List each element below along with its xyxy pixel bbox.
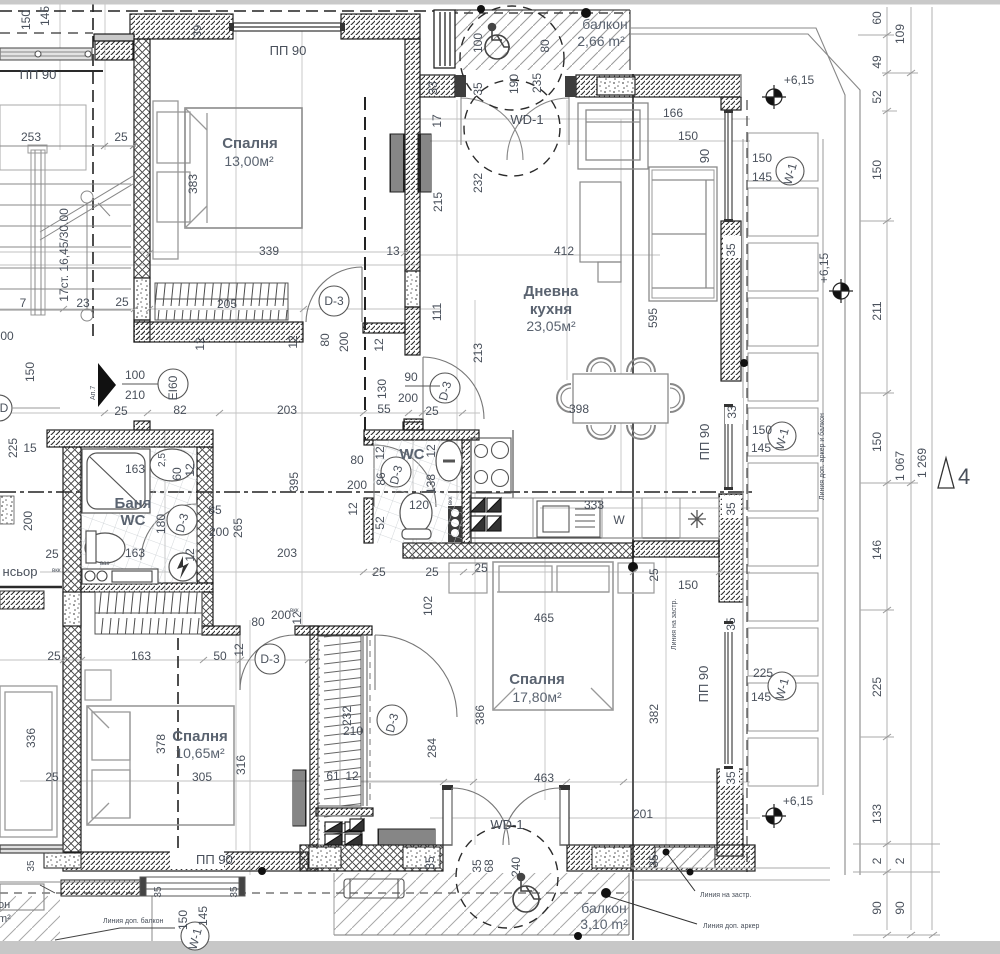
svg-text:145: 145: [38, 6, 52, 26]
svg-text:150: 150: [176, 910, 190, 930]
svg-text:163: 163: [131, 649, 151, 663]
kitchen bottom wall right part: [633, 541, 719, 557]
stairwell landing rect: [0, 105, 86, 170]
svg-text:25: 25: [115, 295, 129, 309]
svg-text:Спалня: Спалня: [172, 728, 228, 745]
WC top wall: [364, 430, 479, 440]
svg-text:378: 378: [154, 734, 168, 754]
building line vertical x633: [632, 74, 634, 940]
closet front double line: [340, 636, 367, 806]
svg-text:339: 339: [259, 244, 279, 258]
svg-text:80: 80: [538, 39, 552, 53]
svg-text:39: 39: [192, 25, 204, 37]
dashed axis x93 top: [92, 0, 94, 337]
kitchen counter front edge: [470, 430, 719, 538]
svg-text:+6,15: +6,15: [817, 252, 831, 283]
svg-text:12: 12: [193, 337, 207, 351]
svg-text:вкк: вкк: [290, 608, 299, 614]
WC left wall upper: [364, 440, 373, 445]
D-3 circles: [167, 286, 460, 735]
svg-text:кухня: кухня: [530, 301, 572, 318]
svg-text:200: 200: [347, 478, 367, 492]
svg-text:253: 253: [21, 130, 41, 144]
door D-3 bathroom leaf+arc: [141, 504, 197, 560]
svg-text:балкон: балкон: [581, 900, 626, 916]
wheelchair icon top balcony: [485, 24, 510, 60]
living top wall right column down: [721, 97, 741, 110]
flat left wall: [63, 447, 81, 852]
wardrobe bedroom1: [155, 283, 288, 320]
svg-text:25: 25: [474, 561, 488, 575]
bathroom toilet: [85, 531, 125, 563]
svg-text:201: 201: [633, 807, 653, 821]
elevator hatch piece: [0, 591, 44, 609]
neighbour bed bottom-left: [0, 686, 57, 837]
nightstand bedroom2: [85, 670, 111, 700]
svg-text:163: 163: [125, 546, 145, 560]
kitchen bottom wall: [403, 543, 633, 558]
svg-text:60: 60: [170, 467, 184, 481]
living left wall insulation: [405, 271, 420, 307]
svg-text:1 067: 1 067: [893, 451, 907, 481]
svg-text:203: 203: [277, 546, 297, 560]
balcony top 2.66 floor hatch: [455, 10, 630, 70]
svg-text:60: 60: [870, 11, 884, 25]
svg-text:150: 150: [23, 362, 37, 382]
dashed line right of flat x745: [746, 100, 748, 872]
svg-text:17,80м²: 17,80м²: [512, 689, 562, 705]
fridge snowflake: [688, 510, 706, 528]
svg-text:336: 336: [24, 728, 38, 748]
closet dashed front: [369, 640, 371, 800]
bedroom1 left wall: [134, 39, 150, 278]
neighbour line top-left y71 PP90: [0, 70, 103, 72]
stair walk line: [40, 176, 133, 232]
svg-text:Ап.7: Ап.7: [90, 386, 97, 400]
stair steps: [0, 183, 131, 185]
svg-text:WC: WC: [400, 446, 425, 463]
bedroom2 right wall / closet wall: [310, 626, 318, 871]
left small insulation piece: [0, 496, 14, 524]
balcony top dashed border: [434, 12, 630, 14]
svg-text:386: 386: [473, 705, 487, 725]
white boxes for wall labels: [720, 236, 743, 786]
svg-text:52: 52: [373, 516, 387, 530]
bedroom2 top wall right part: [295, 626, 372, 635]
svg-text:ПП 90: ПП 90: [270, 43, 307, 58]
door D-3 kitchen leaf+arc: [423, 357, 484, 419]
svg-text:Линия доп. балкон: Линия доп. балкон: [103, 917, 164, 925]
chimney notch above bathroom: [134, 421, 150, 430]
svg-text:ПП 90: ПП 90: [696, 666, 711, 703]
svg-text:12: 12: [183, 463, 197, 477]
bed bedroom3: [493, 562, 613, 710]
door WD-1 bottom jamb left: [443, 788, 452, 845]
svg-text:35: 35: [229, 886, 240, 898]
svg-text:Линия на застр.: Линия на застр.: [671, 599, 678, 650]
black dots: [477, 5, 485, 13]
svg-text:163: 163: [125, 462, 145, 476]
svg-text:80: 80: [350, 453, 364, 467]
svg-text:+6,15: +6,15: [784, 73, 815, 87]
section dash-dot line horizontal: [0, 491, 752, 493]
nightstand bedroom3 right: [618, 563, 654, 593]
living left wall lower: [405, 307, 420, 355]
bedroom2 bottom wall: [63, 852, 308, 871]
svg-text:80: 80: [318, 333, 332, 347]
dashed circle WD-1 bottom: [456, 826, 558, 928]
svg-text:180: 180: [154, 514, 168, 534]
svg-text:35: 35: [647, 854, 661, 868]
svg-text:150: 150: [752, 423, 772, 437]
svg-text:49: 49: [870, 55, 884, 69]
svg-text:17ст. 16,45/30.00: 17ст. 16,45/30.00: [57, 208, 71, 302]
dashed circle balcony top: [460, 6, 564, 110]
svg-text:35: 35: [153, 886, 164, 898]
svg-text:225: 225: [870, 677, 884, 697]
svg-text:ПП 90: ПП 90: [20, 67, 57, 82]
svg-text:61: 61: [326, 769, 340, 783]
benchmark crosshair 3: [762, 804, 786, 828]
svg-text:316: 316: [234, 755, 248, 775]
svg-text:балкон: балкон: [582, 16, 627, 32]
svg-text:7: 7: [20, 296, 27, 310]
right wall window 1: [725, 112, 732, 220]
axis bubble -D: [0, 395, 12, 421]
bottom gray bar: [0, 941, 1000, 954]
svg-text:145: 145: [751, 690, 771, 704]
svg-text:211: 211: [870, 301, 884, 320]
svg-text:100: 100: [471, 33, 485, 53]
svg-text:305: 305: [192, 770, 212, 784]
svg-text:35: 35: [724, 243, 738, 257]
svg-text:150: 150: [870, 160, 884, 180]
svg-text:68: 68: [482, 859, 496, 873]
circle labels: [0, 161, 800, 951]
bedroom1 bottom wall: [134, 322, 303, 342]
svg-text:146: 146: [870, 540, 884, 560]
door D-3 WC leaf+arc: [374, 445, 436, 507]
door WD-1 bottom arcs: [452, 788, 560, 845]
benchmark crosshair 1: [762, 85, 786, 109]
horizontal dimension numbers: [0, 73, 814, 821]
svg-text:225: 225: [6, 438, 20, 458]
vent squares kitchen: [471, 498, 501, 531]
right dim chain lines: [631, 7, 940, 935]
svg-text:100: 100: [125, 368, 145, 382]
svg-text:225: 225: [753, 666, 773, 680]
bathroom top wall: [47, 430, 213, 447]
bottom wall right of door WD-1: [567, 845, 631, 871]
svg-text:150: 150: [678, 578, 698, 592]
dashed circle WD-1 top: [464, 80, 560, 176]
svg-text:Баня: Баня: [115, 495, 152, 512]
svg-text:10,65м²: 10,65м²: [175, 745, 225, 761]
svg-text:150: 150: [678, 129, 698, 143]
svg-text:+6,15: +6,15: [783, 794, 814, 808]
neighbour wall step top-left: [94, 34, 134, 41]
svg-text:4: 4: [958, 464, 970, 489]
svg-text:200: 200: [271, 608, 291, 622]
svg-text:210: 210: [125, 388, 145, 402]
svg-text:145: 145: [752, 170, 772, 184]
svg-text:133: 133: [870, 804, 884, 824]
svg-text:D-3: D-3: [260, 652, 280, 666]
svg-text:35: 35: [471, 82, 485, 96]
svg-text:Линия на застр.: Линия на застр.: [700, 892, 751, 899]
svg-text:35: 35: [26, 860, 37, 872]
living top wall left piece: [420, 75, 455, 97]
right wall pillar y769-856: [717, 769, 743, 856]
svg-text:нсьор: нсьор: [3, 564, 38, 579]
dashed axis x178 bedroom2: [177, 638, 179, 852]
wardrobe below bathroom: [95, 592, 202, 634]
svg-text:25: 25: [647, 568, 661, 582]
neighbour window top-left: [0, 48, 92, 60]
triangle level mark 4: [938, 458, 954, 488]
svg-text:1 269: 1 269: [915, 448, 929, 478]
top dashed line y9: [0, 10, 434, 12]
svg-text:W: W: [613, 513, 625, 527]
armchair living: [578, 103, 648, 169]
coffee table living: [580, 182, 621, 282]
svg-text:265: 265: [231, 518, 245, 538]
svg-text:150: 150: [752, 151, 772, 165]
svg-text:86: 86: [374, 472, 388, 486]
svg-text:Линия доп. аркер: Линия доп. аркер: [703, 923, 759, 930]
svg-text:12: 12: [424, 444, 438, 458]
svg-text:25: 25: [45, 547, 59, 561]
balcony door frame element top: [434, 10, 455, 68]
svg-text:33: 33: [426, 81, 440, 95]
svg-text:52: 52: [870, 90, 884, 104]
right wall pillar between windows 1-2: [721, 221, 741, 381]
svg-text:190: 190: [507, 74, 521, 94]
svg-text:232: 232: [471, 173, 485, 193]
svg-text:333: 333: [584, 498, 604, 512]
svg-text:12: 12: [232, 643, 246, 657]
WC floor tiles: [373, 440, 462, 543]
sofa living: [649, 167, 717, 301]
svg-text:12: 12: [345, 769, 359, 783]
svg-text:145: 145: [751, 441, 771, 455]
bathroom right wall: [197, 447, 213, 583]
svg-text:200: 200: [337, 332, 351, 352]
bedroom1 top wall left part: [47, 14, 755, 871]
svg-text:он: он: [0, 899, 10, 911]
svg-text:ПП 90: ПП 90: [196, 852, 233, 867]
bottom wall between bedroom2 and bedroom3: [300, 845, 443, 871]
svg-text:12: 12: [286, 335, 300, 349]
W-1 circles: [181, 157, 804, 950]
svg-text:33: 33: [725, 405, 739, 419]
svg-text:вак: вак: [100, 561, 109, 567]
bathroom washer row: [82, 569, 158, 584]
window end caps right wall: [724, 110, 733, 769]
svg-text:00: 00: [0, 329, 14, 343]
neighbour balcony SW floor hatch: [0, 896, 60, 954]
svg-text:102: 102: [421, 596, 435, 616]
svg-text:382: 382: [647, 704, 661, 724]
svg-text:2: 2: [893, 857, 907, 864]
bottom-right wall band: [631, 845, 755, 871]
bedroom2 window bottom: [140, 877, 245, 896]
svg-text:120: 120: [409, 498, 429, 512]
kitchen door wall stub: [404, 419, 423, 430]
balcony divider wall block: [61, 880, 140, 896]
svg-text:13: 13: [386, 244, 400, 258]
svg-text:EI60: EI60: [166, 375, 180, 400]
dashed axis x365: [364, 97, 366, 440]
svg-text:595: 595: [646, 308, 660, 328]
svg-text:12: 12: [372, 338, 386, 352]
closet bottom wall: [316, 808, 373, 816]
svg-text:25: 25: [45, 770, 59, 784]
svg-text:465: 465: [534, 611, 554, 625]
fraction lines: [122, 384, 440, 627]
bedroom1 left wall bottom piece: [134, 320, 150, 342]
svg-text:232: 232: [340, 706, 354, 726]
corridor top wall stub right of door: [363, 323, 405, 333]
svg-text:m²: m²: [0, 913, 11, 925]
living top wall insulation block: [597, 77, 635, 95]
tiny leader texts: [0, 892, 759, 930]
door D-3 bedroom3 entry arc: [375, 635, 457, 717]
WC top wall notch: [403, 422, 423, 430]
door WD-1 top jamb right: [565, 76, 576, 97]
svg-text:WD-1: WD-1: [510, 112, 543, 127]
svg-text:200: 200: [209, 525, 229, 539]
flat left wall stipple segment: [63, 592, 81, 626]
balcony bottom dashed border: [0, 892, 629, 894]
svg-text:50: 50: [213, 649, 227, 663]
living left wall upper: [405, 39, 420, 271]
svg-text:90: 90: [870, 901, 884, 915]
WC toilet: [400, 493, 432, 539]
svg-text:23,05м²: 23,05м²: [526, 318, 576, 334]
svg-text:145: 145: [196, 906, 210, 926]
svg-text:WD-1: WD-1: [490, 817, 523, 832]
door WD-1 top arcs: [461, 97, 569, 160]
WC right wall: [462, 440, 471, 543]
right wall window 3: [725, 623, 732, 767]
top outline polyline: [630, 28, 860, 875]
svg-text:138: 138: [424, 474, 438, 494]
wall piece below bathroom right: [202, 592, 213, 626]
bed bedroom1 headboard strip: [153, 101, 302, 259]
svg-text:D-3: D-3: [324, 294, 344, 308]
radiator bedroom2: [293, 770, 306, 826]
svg-text:235: 235: [530, 73, 544, 93]
svg-text:80: 80: [251, 615, 265, 629]
svg-text:90: 90: [404, 370, 418, 384]
door D-3 bedroom1 leaf+arc: [306, 267, 362, 322]
radiators flanking living left wall: [390, 134, 404, 192]
small vent square left of bedroom3 radiator: [350, 819, 364, 831]
svg-text:25: 25: [372, 565, 386, 579]
bathtub: [82, 449, 150, 513]
nightstand bedroom3 left: [449, 563, 487, 593]
svg-text:463: 463: [534, 771, 554, 785]
svg-text:17: 17: [430, 114, 444, 128]
EI60 circle: [158, 369, 188, 399]
svg-text:3,10 m²: 3,10 m²: [580, 916, 628, 932]
bedroom1 window top: [233, 23, 341, 31]
svg-text:WC: WC: [121, 512, 146, 529]
svg-text:25: 25: [114, 130, 128, 144]
benchmark crosshair 2: [829, 279, 853, 303]
svg-text:12: 12: [346, 502, 360, 516]
entry arrow: [98, 363, 116, 407]
WC left wall lower: [364, 498, 373, 543]
vent squares near bedroom3: [325, 822, 362, 845]
living top wall right piece: [576, 75, 741, 97]
svg-text:85: 85: [208, 503, 222, 517]
bedroom2 top wall left part: [202, 626, 240, 635]
svg-text:35: 35: [724, 502, 738, 516]
door D-3 bedroom2 leaf+arc: [240, 635, 295, 690]
svg-text:90: 90: [893, 901, 907, 915]
svg-text:12: 12: [183, 548, 197, 562]
svg-text:412: 412: [554, 244, 574, 258]
radiator bedroom3: [378, 829, 435, 845]
elevator wall piece: [0, 586, 62, 588]
bathroom floor tiles: [81, 447, 197, 583]
cooktop: [471, 438, 511, 493]
dark shaft column near WC: [448, 506, 462, 542]
svg-text:2: 2: [870, 857, 884, 864]
svg-text:205: 205: [217, 297, 237, 311]
bottom-left leader line: [40, 885, 175, 940]
window end caps bedroom1 / bedroom2: [229, 23, 345, 31]
washer W box: [602, 498, 642, 538]
svg-text:383: 383: [186, 174, 200, 194]
balcony panels column right: [743, 133, 823, 795]
svg-text:2,5: 2,5: [157, 453, 168, 467]
svg-text:Спалня: Спалня: [509, 671, 565, 688]
bed bedroom1 mattress: [185, 108, 302, 228]
bottom-right leader lines: [604, 852, 697, 924]
room labels: [3, 16, 629, 932]
bed bedroom1 pillows: [157, 112, 190, 163]
svg-text:25: 25: [425, 565, 439, 579]
svg-text:35: 35: [423, 856, 437, 870]
svg-text:111: 111: [430, 303, 444, 322]
svg-text:200: 200: [21, 511, 35, 531]
svg-text:Дневна: Дневна: [524, 283, 579, 300]
neighbour balcony SW lines: [0, 881, 152, 883]
bathroom bottom wall: [81, 583, 213, 592]
right wall window 2: [725, 406, 732, 488]
radiator balcony bottom bench: [344, 879, 404, 898]
svg-text:15: 15: [23, 441, 37, 455]
svg-text:13,00м²: 13,00м²: [224, 153, 274, 169]
bed bedroom2: [87, 706, 234, 825]
svg-text:вкк: вкк: [448, 496, 454, 505]
bedroom1 left wall insulation block: [134, 278, 150, 320]
svg-text:130: 130: [375, 379, 389, 399]
insulation blocks in bottom walls: [44, 847, 715, 868]
svg-text:215: 215: [431, 192, 445, 212]
door WD-1 bottom jamb right: [560, 788, 569, 845]
kitchen sink: [537, 501, 600, 537]
svg-text:35: 35: [724, 771, 738, 785]
svg-text:109: 109: [893, 24, 907, 44]
WC sink: [436, 441, 462, 481]
stair handrail: [31, 150, 45, 315]
dining chairs: [557, 358, 684, 439]
closet between bedrooms: [318, 636, 361, 845]
